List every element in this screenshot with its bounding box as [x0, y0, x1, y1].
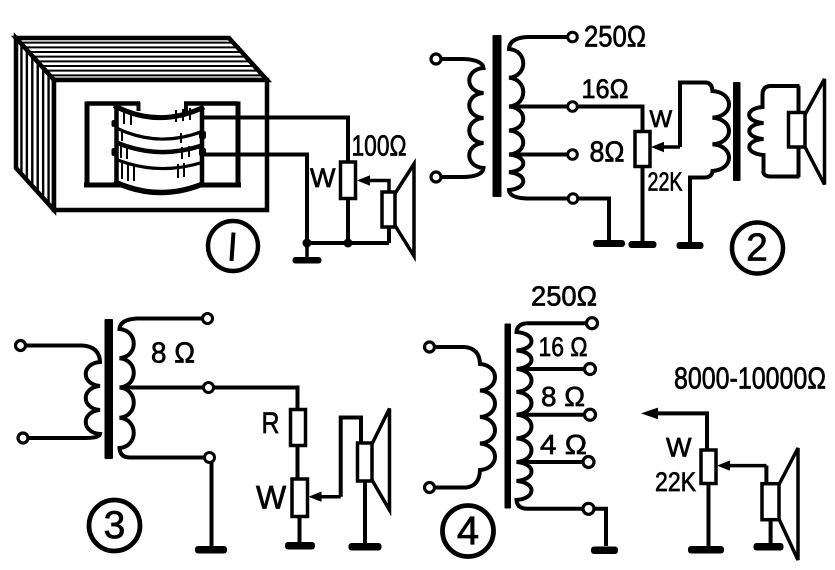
svg-text:100Ω: 100Ω — [352, 131, 407, 163]
svg-text:W: W — [666, 432, 692, 462]
svg-text:22K: 22K — [648, 167, 683, 197]
svg-text:W: W — [650, 106, 673, 133]
svg-text:16Ω: 16Ω — [582, 74, 629, 104]
svg-text:16 Ω: 16 Ω — [539, 332, 588, 362]
svg-text:W: W — [256, 480, 287, 516]
svg-text:4 Ω: 4 Ω — [540, 429, 587, 460]
svg-text:250Ω: 250Ω — [584, 21, 646, 54]
svg-text:8Ω: 8Ω — [590, 137, 625, 169]
svg-text:3: 3 — [104, 504, 126, 547]
svg-text:8000-10000Ω: 8000-10000Ω — [674, 361, 826, 396]
svg-text:250Ω: 250Ω — [531, 281, 597, 312]
svg-text:8 Ω: 8 Ω — [541, 381, 585, 412]
svg-text:2: 2 — [746, 227, 768, 270]
svg-text:R: R — [262, 407, 280, 440]
svg-text:22K: 22K — [655, 467, 696, 497]
svg-text:4: 4 — [457, 509, 479, 553]
svg-text:W: W — [310, 163, 336, 193]
svg-text:8 Ω: 8 Ω — [151, 338, 195, 370]
